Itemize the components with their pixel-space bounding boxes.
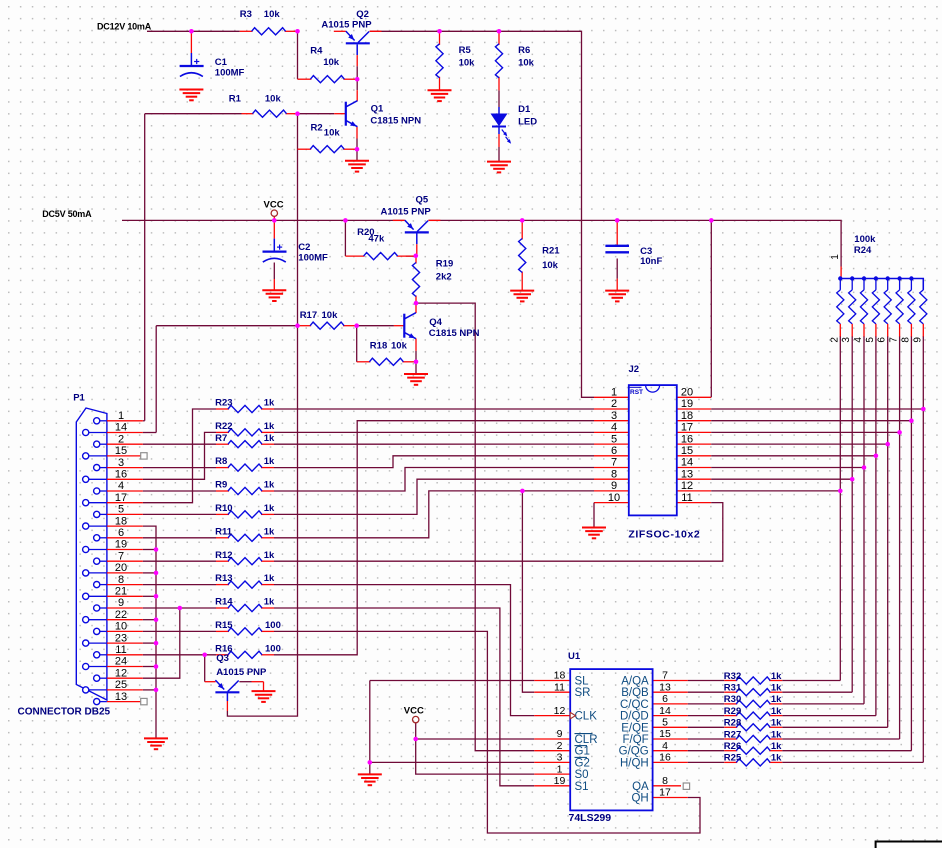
svg-text:R32: R32 xyxy=(724,671,741,682)
svg-text:R31: R31 xyxy=(724,683,742,694)
svg-text:10k: 10k xyxy=(264,9,281,20)
svg-text:1k: 1k xyxy=(264,421,275,432)
svg-text:100k: 100k xyxy=(854,234,876,245)
svg-text:7: 7 xyxy=(662,670,668,682)
svg-text:VCC: VCC xyxy=(404,705,424,716)
svg-text:18: 18 xyxy=(554,670,566,682)
svg-text:R11: R11 xyxy=(215,526,233,537)
svg-text:C2: C2 xyxy=(298,242,310,253)
svg-text:QH: QH xyxy=(631,793,648,805)
svg-text:9: 9 xyxy=(611,480,617,492)
svg-text:10: 10 xyxy=(115,621,127,633)
svg-text:C1815 NPN: C1815 NPN xyxy=(370,116,421,127)
svg-text:11: 11 xyxy=(554,681,565,693)
svg-text:G2: G2 xyxy=(575,757,590,769)
svg-text:2: 2 xyxy=(611,398,617,410)
svg-text:13: 13 xyxy=(681,468,693,480)
svg-text:7: 7 xyxy=(118,550,124,562)
svg-text:100: 100 xyxy=(265,620,281,631)
svg-text:H/QH: H/QH xyxy=(620,757,649,769)
svg-text:1k: 1k xyxy=(264,456,275,467)
svg-text:Q5: Q5 xyxy=(416,195,429,206)
svg-text:1k: 1k xyxy=(771,718,782,729)
svg-text:12: 12 xyxy=(681,480,693,492)
svg-text:D/QD: D/QD xyxy=(620,711,649,723)
svg-text:R5: R5 xyxy=(459,45,472,56)
svg-text:7: 7 xyxy=(611,457,617,469)
svg-text:1k: 1k xyxy=(771,694,782,705)
svg-text:10k: 10k xyxy=(323,57,340,68)
svg-text:1k: 1k xyxy=(771,741,782,752)
svg-text:1: 1 xyxy=(118,410,124,422)
svg-text:16: 16 xyxy=(659,752,671,764)
svg-text:Q3: Q3 xyxy=(216,653,229,664)
svg-text:P1: P1 xyxy=(73,393,85,404)
svg-text:R19: R19 xyxy=(436,258,453,269)
svg-text:8: 8 xyxy=(118,574,124,586)
svg-text:S0: S0 xyxy=(575,769,589,781)
svg-text:Q4: Q4 xyxy=(429,317,442,328)
svg-text:14: 14 xyxy=(681,457,693,469)
svg-text:12: 12 xyxy=(115,667,127,679)
svg-text:9: 9 xyxy=(118,597,124,609)
svg-text:6: 6 xyxy=(118,527,124,539)
svg-text:R1: R1 xyxy=(229,94,242,105)
svg-text:10k: 10k xyxy=(542,260,559,271)
svg-text:9: 9 xyxy=(557,728,563,740)
svg-text:R3: R3 xyxy=(240,9,252,20)
svg-text:2k2: 2k2 xyxy=(436,272,452,283)
svg-text:3: 3 xyxy=(611,410,617,422)
svg-text:47k: 47k xyxy=(368,233,385,244)
svg-text:R10: R10 xyxy=(215,503,232,514)
svg-text:QA: QA xyxy=(632,781,649,793)
svg-text:1k: 1k xyxy=(264,573,275,584)
svg-text:DC12V 10mA: DC12V 10mA xyxy=(97,22,152,32)
svg-text:R18: R18 xyxy=(370,340,387,351)
svg-text:1k: 1k xyxy=(264,550,275,561)
svg-text:R17: R17 xyxy=(300,310,317,321)
svg-text:A1015 PNP: A1015 PNP xyxy=(321,19,372,30)
svg-text:DC5V 50mA: DC5V 50mA xyxy=(42,209,92,219)
svg-text:6: 6 xyxy=(611,445,617,457)
svg-text:R23: R23 xyxy=(215,398,232,409)
svg-text:C1: C1 xyxy=(215,57,228,68)
svg-text:5: 5 xyxy=(611,433,617,445)
svg-text:R8: R8 xyxy=(215,456,227,467)
svg-text:10k: 10k xyxy=(518,57,535,68)
svg-text:1: 1 xyxy=(830,254,841,260)
svg-text:R14: R14 xyxy=(215,597,233,608)
svg-text:10k: 10k xyxy=(324,128,341,139)
svg-text:1k: 1k xyxy=(264,398,275,409)
svg-text:R13: R13 xyxy=(215,573,232,584)
svg-text:R12: R12 xyxy=(215,550,232,561)
svg-text:R7: R7 xyxy=(215,433,227,444)
svg-text:11: 11 xyxy=(115,644,126,656)
svg-text:S1: S1 xyxy=(575,781,589,793)
svg-text:ZIFSOC-10x2: ZIFSOC-10x2 xyxy=(628,529,700,541)
svg-text:A/QA: A/QA xyxy=(621,676,649,688)
svg-text:10k: 10k xyxy=(265,94,282,105)
svg-text:1k: 1k xyxy=(771,706,782,717)
svg-text:CONNECTOR DB25: CONNECTOR DB25 xyxy=(18,707,111,718)
svg-text:7: 7 xyxy=(889,337,900,343)
svg-text:2: 2 xyxy=(557,740,563,752)
svg-text:R24: R24 xyxy=(854,245,872,256)
svg-text:11: 11 xyxy=(681,492,692,504)
svg-text:1k: 1k xyxy=(264,480,275,491)
svg-text:25: 25 xyxy=(115,679,127,691)
svg-text:100MF: 100MF xyxy=(215,68,245,79)
svg-text:R28: R28 xyxy=(724,718,741,729)
svg-text:1k: 1k xyxy=(771,671,782,682)
svg-text:8: 8 xyxy=(900,337,911,343)
svg-text:R25: R25 xyxy=(724,753,742,764)
svg-text:D1: D1 xyxy=(518,104,531,115)
svg-text:15: 15 xyxy=(681,445,693,457)
svg-text:8: 8 xyxy=(662,775,668,787)
svg-text:20: 20 xyxy=(115,562,127,574)
svg-text:E/QE: E/QE xyxy=(621,722,649,734)
svg-text:10k: 10k xyxy=(459,57,476,68)
svg-text:R26: R26 xyxy=(724,741,741,752)
svg-text:1k: 1k xyxy=(264,503,275,514)
svg-text:R29: R29 xyxy=(724,706,741,717)
svg-text:1k: 1k xyxy=(771,729,782,740)
svg-text:13: 13 xyxy=(115,691,127,703)
svg-text:R2: R2 xyxy=(311,123,323,134)
svg-text:4: 4 xyxy=(118,480,124,492)
svg-text:4: 4 xyxy=(611,422,617,434)
svg-text:10k: 10k xyxy=(391,340,408,351)
svg-text:3: 3 xyxy=(841,337,852,343)
svg-text:1k: 1k xyxy=(264,597,275,608)
svg-text:SR: SR xyxy=(575,687,591,699)
svg-text:R15: R15 xyxy=(215,620,233,631)
svg-text:1k: 1k xyxy=(771,753,782,764)
svg-text:17: 17 xyxy=(659,787,671,799)
svg-text:5: 5 xyxy=(662,717,668,729)
svg-text:100: 100 xyxy=(265,643,281,654)
svg-text:1k: 1k xyxy=(771,683,782,694)
svg-text:10nF: 10nF xyxy=(640,256,662,267)
svg-text:B/QB: B/QB xyxy=(621,687,649,699)
svg-text:2: 2 xyxy=(829,337,840,343)
svg-text:10: 10 xyxy=(608,492,620,504)
svg-text:1: 1 xyxy=(611,387,617,399)
svg-text:LED: LED xyxy=(518,117,537,128)
svg-text:G1: G1 xyxy=(575,746,590,758)
svg-text:J2: J2 xyxy=(629,364,640,375)
svg-text:SL: SL xyxy=(575,676,590,688)
svg-text:14: 14 xyxy=(659,705,671,717)
svg-text:F/QF: F/QF xyxy=(622,734,648,746)
svg-text:17: 17 xyxy=(115,492,127,504)
svg-text:18: 18 xyxy=(681,410,693,422)
svg-text:74LS299: 74LS299 xyxy=(569,812,612,824)
svg-text:24: 24 xyxy=(115,656,127,668)
svg-text:14: 14 xyxy=(115,422,127,434)
svg-text:1k: 1k xyxy=(264,433,275,444)
svg-text:5: 5 xyxy=(865,337,876,343)
svg-text:100MF: 100MF xyxy=(298,252,328,263)
svg-text:12: 12 xyxy=(554,705,566,717)
svg-text:R16: R16 xyxy=(215,643,232,654)
svg-text:6: 6 xyxy=(877,337,888,343)
svg-text:A1015 PNP: A1015 PNP xyxy=(216,667,267,678)
svg-text:R22: R22 xyxy=(215,421,232,432)
svg-text:R9: R9 xyxy=(215,480,227,491)
svg-text:19: 19 xyxy=(115,539,127,551)
svg-text:20: 20 xyxy=(681,387,693,399)
svg-text:1: 1 xyxy=(557,763,563,775)
svg-text:17: 17 xyxy=(681,422,693,434)
svg-text:C1815 NPN: C1815 NPN xyxy=(429,328,480,339)
svg-text:VCC: VCC xyxy=(264,199,284,210)
svg-text:15: 15 xyxy=(115,445,127,457)
svg-text:Q1: Q1 xyxy=(371,104,384,115)
svg-text:CLR: CLR xyxy=(575,734,598,746)
svg-text:21: 21 xyxy=(115,586,127,598)
svg-text:18: 18 xyxy=(115,515,127,527)
svg-text:CLK: CLK xyxy=(575,711,598,723)
svg-text:3: 3 xyxy=(118,457,124,469)
svg-text:4: 4 xyxy=(853,337,864,343)
svg-text:5: 5 xyxy=(118,504,124,516)
svg-text:1k: 1k xyxy=(264,526,275,537)
svg-text:10k: 10k xyxy=(322,310,339,321)
svg-text:U1: U1 xyxy=(568,651,581,662)
svg-text:19: 19 xyxy=(681,398,693,410)
svg-text:22: 22 xyxy=(115,609,127,621)
svg-text:A1015 PNP: A1015 PNP xyxy=(381,206,432,217)
svg-text:23: 23 xyxy=(115,632,127,644)
svg-text:RST: RST xyxy=(630,389,643,396)
svg-text:R4: R4 xyxy=(310,46,323,57)
svg-text:8: 8 xyxy=(611,468,617,480)
svg-text:19: 19 xyxy=(554,775,566,787)
svg-text:4: 4 xyxy=(662,740,668,752)
svg-text:15: 15 xyxy=(659,728,671,740)
svg-text:G/QG: G/QG xyxy=(619,746,649,758)
svg-text:16: 16 xyxy=(115,469,127,481)
svg-text:16: 16 xyxy=(681,433,693,445)
svg-text:C/QC: C/QC xyxy=(620,699,649,711)
svg-text:2: 2 xyxy=(118,433,124,445)
svg-text:6: 6 xyxy=(662,693,668,705)
svg-text:R27: R27 xyxy=(724,729,741,740)
svg-text:9: 9 xyxy=(912,337,923,343)
svg-text:R30: R30 xyxy=(724,694,741,705)
svg-text:3: 3 xyxy=(557,752,563,764)
svg-text:R21: R21 xyxy=(542,246,560,257)
svg-text:13: 13 xyxy=(659,681,671,693)
svg-text:R6: R6 xyxy=(518,45,530,56)
